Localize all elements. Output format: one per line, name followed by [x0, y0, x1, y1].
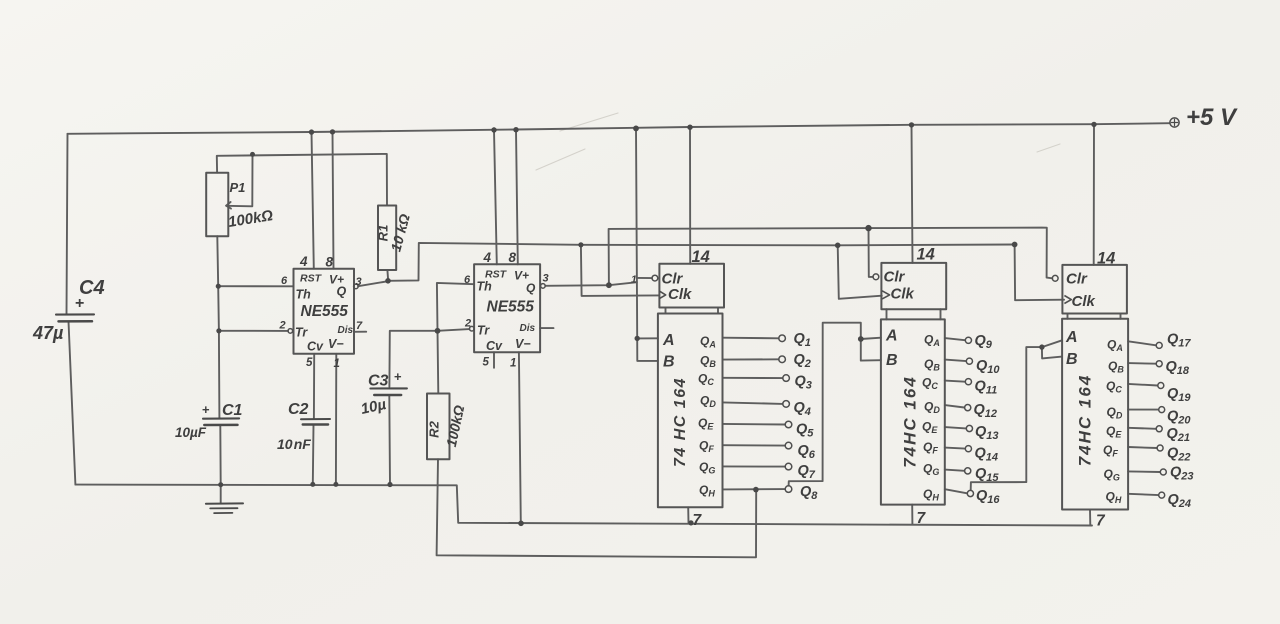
- svg-text:8: 8: [326, 255, 334, 270]
- svg-text:A: A: [662, 332, 675, 349]
- svg-text:6: 6: [464, 274, 471, 286]
- svg-text:10µF: 10µF: [175, 425, 207, 440]
- svg-text:Tr: Tr: [477, 324, 490, 338]
- svg-text:Th: Th: [477, 280, 493, 294]
- svg-text:5: 5: [483, 357, 490, 369]
- svg-text:4: 4: [483, 250, 492, 265]
- svg-text:7: 7: [1096, 513, 1106, 530]
- svg-text:Q: Q: [337, 285, 347, 299]
- svg-text:+: +: [202, 402, 210, 417]
- svg-text:Cv: Cv: [307, 340, 324, 354]
- svg-text:7: 7: [917, 510, 927, 527]
- svg-text:C1: C1: [222, 402, 243, 419]
- svg-text:+: +: [75, 295, 84, 312]
- svg-text:74HC 164: 74HC 164: [901, 375, 920, 468]
- svg-text:R1: R1: [376, 225, 391, 242]
- svg-text:Q: Q: [526, 281, 536, 295]
- svg-text:4: 4: [299, 254, 308, 269]
- svg-text:A: A: [885, 328, 898, 345]
- svg-text:74HC 164: 74HC 164: [1076, 374, 1095, 467]
- svg-text:RST: RST: [300, 273, 323, 285]
- svg-text:3: 3: [356, 276, 362, 288]
- svg-text:B: B: [663, 354, 675, 371]
- svg-text:14: 14: [692, 248, 710, 266]
- svg-text:47µ: 47µ: [32, 323, 64, 343]
- svg-text:Clr: Clr: [662, 271, 684, 288]
- svg-text:1: 1: [334, 358, 340, 370]
- svg-text:C3: C3: [368, 373, 389, 390]
- svg-text:B: B: [1066, 351, 1078, 368]
- svg-text:10 nF: 10 nF: [277, 436, 311, 452]
- svg-text:74 HC 164: 74 HC 164: [672, 377, 689, 467]
- svg-text:+: +: [394, 369, 402, 384]
- svg-text:14: 14: [917, 246, 935, 264]
- svg-text:3: 3: [543, 273, 549, 285]
- svg-text:Dis: Dis: [520, 323, 536, 334]
- svg-text:R2: R2: [427, 420, 442, 437]
- svg-text:Cv: Cv: [486, 339, 503, 353]
- svg-text:Clr: Clr: [884, 269, 906, 286]
- svg-text:Dis: Dis: [338, 325, 354, 336]
- svg-text:B: B: [886, 352, 898, 369]
- svg-text:1: 1: [510, 358, 516, 370]
- svg-text:6: 6: [281, 275, 288, 287]
- svg-text:5: 5: [306, 357, 313, 369]
- svg-text:C2: C2: [288, 401, 309, 418]
- svg-text:14: 14: [1097, 250, 1115, 268]
- svg-text:V−: V−: [328, 337, 344, 351]
- svg-text:NE555: NE555: [487, 299, 535, 316]
- svg-text:P1: P1: [230, 180, 246, 195]
- svg-text:V−: V−: [515, 337, 531, 351]
- svg-text:Clk: Clk: [1072, 293, 1096, 310]
- svg-text:Clr: Clr: [1066, 271, 1088, 288]
- svg-text:Clk: Clk: [891, 286, 915, 303]
- svg-text:Th: Th: [296, 288, 312, 302]
- svg-text:A: A: [1065, 329, 1078, 346]
- svg-text:2: 2: [279, 320, 286, 332]
- svg-text:8: 8: [509, 250, 517, 265]
- svg-text:Tr: Tr: [295, 326, 308, 340]
- svg-text:+5 V: +5 V: [1186, 104, 1238, 131]
- svg-text:2: 2: [464, 318, 471, 330]
- svg-text:NE555: NE555: [301, 303, 349, 320]
- svg-text:1: 1: [631, 274, 637, 286]
- svg-text:7: 7: [693, 512, 703, 529]
- svg-text:7: 7: [356, 320, 363, 332]
- svg-text:Clk: Clk: [668, 286, 692, 303]
